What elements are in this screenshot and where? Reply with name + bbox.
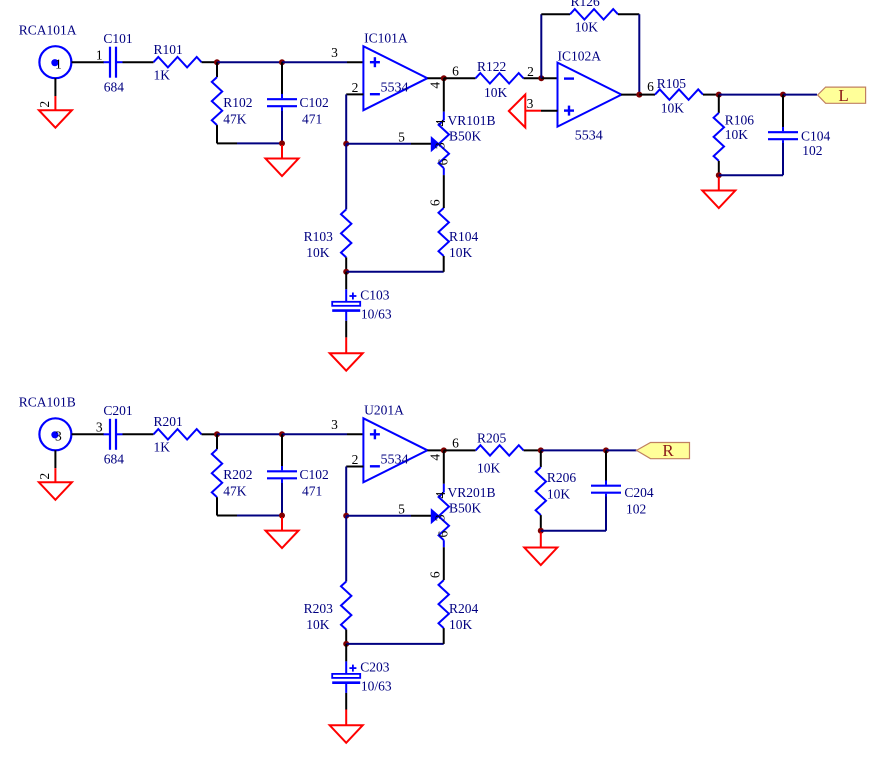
pin number 6 bbox=[452, 436, 459, 451]
ground bbox=[540, 533, 542, 548]
wire bbox=[540, 515, 542, 531]
svg-text:C102: C102 bbox=[300, 95, 329, 110]
label R206 bbox=[547, 470, 577, 485]
wire bbox=[217, 515, 282, 517]
svg-text:R202: R202 bbox=[223, 467, 252, 482]
wire bbox=[719, 94, 783, 96]
wire bbox=[216, 125, 218, 143]
value 47K bbox=[223, 484, 247, 499]
value 10/63 bbox=[361, 679, 392, 694]
wire bbox=[718, 161, 720, 175]
wire bbox=[782, 143, 784, 175]
wire bbox=[783, 94, 817, 96]
wire bbox=[345, 94, 347, 143]
svg-text:R205: R205 bbox=[477, 430, 507, 445]
resistor R103 bbox=[341, 209, 351, 257]
svg-text:VR201B: VR201B bbox=[448, 485, 496, 500]
svg-text:4: 4 bbox=[433, 119, 448, 126]
resistor R206 bbox=[536, 467, 546, 515]
svg-text:10K: 10K bbox=[477, 460, 501, 475]
svg-text:C203: C203 bbox=[360, 660, 390, 675]
port R bbox=[637, 441, 690, 460]
wire bbox=[281, 62, 283, 94]
wire bbox=[217, 142, 282, 144]
wire bbox=[427, 449, 443, 451]
pin number 2 bbox=[37, 101, 52, 108]
wire bbox=[217, 433, 282, 435]
svg-text:102: 102 bbox=[802, 143, 822, 158]
ground bbox=[281, 145, 283, 159]
pin number 3 bbox=[331, 45, 338, 60]
wire bbox=[719, 174, 783, 176]
wire bbox=[281, 434, 283, 466]
svg-text:R206: R206 bbox=[547, 470, 577, 485]
svg-text:4: 4 bbox=[433, 491, 448, 498]
wire bbox=[216, 62, 218, 77]
svg-text:6: 6 bbox=[647, 79, 654, 94]
svg-text:3: 3 bbox=[331, 45, 338, 60]
svg-text:C204: C204 bbox=[624, 485, 654, 500]
svg-text:C102: C102 bbox=[300, 467, 329, 482]
wire bbox=[703, 94, 719, 96]
value 10/63 bbox=[361, 307, 392, 322]
pin number 3 bbox=[331, 417, 338, 432]
ground bbox=[54, 78, 56, 110]
svg-text:10K: 10K bbox=[306, 245, 330, 260]
capacitor C102 bbox=[267, 94, 297, 112]
value 10K bbox=[575, 19, 599, 34]
svg-text:IC101A: IC101A bbox=[364, 30, 408, 45]
value 10K bbox=[449, 245, 473, 260]
wire bbox=[444, 77, 476, 79]
label U201A bbox=[364, 403, 404, 418]
svg-text:6: 6 bbox=[427, 571, 442, 578]
wire bbox=[282, 433, 363, 435]
value 10K bbox=[725, 127, 749, 142]
svg-text:R203: R203 bbox=[304, 601, 334, 616]
junction bbox=[279, 431, 285, 437]
svg-text:684: 684 bbox=[104, 452, 125, 467]
pin number 6 bbox=[427, 199, 442, 206]
pin number 3 bbox=[527, 96, 534, 111]
resistor R126 bbox=[570, 9, 618, 19]
value 10K bbox=[547, 487, 571, 502]
value 10K bbox=[484, 85, 508, 100]
wire bbox=[443, 628, 445, 644]
junction bbox=[214, 431, 220, 437]
wire bbox=[524, 77, 542, 79]
svg-text:10/63: 10/63 bbox=[361, 307, 392, 322]
potentiometer VR201B bbox=[431, 484, 449, 547]
svg-text:3: 3 bbox=[433, 514, 448, 521]
pin number 2 bbox=[352, 452, 359, 467]
pin number 4 bbox=[427, 454, 442, 461]
svg-text:2: 2 bbox=[352, 452, 359, 467]
junction bbox=[636, 92, 642, 98]
wire bbox=[524, 449, 541, 451]
svg-text:6: 6 bbox=[452, 64, 459, 79]
svg-text:R126: R126 bbox=[571, 0, 601, 9]
label R203 bbox=[304, 601, 334, 616]
capacitor C101 bbox=[104, 47, 123, 78]
junction bbox=[343, 641, 349, 647]
svg-text:10K: 10K bbox=[661, 100, 685, 115]
label IC101A bbox=[364, 30, 408, 45]
svg-text:R105: R105 bbox=[657, 76, 687, 91]
label R103 bbox=[304, 229, 334, 244]
pin number 3 bbox=[96, 420, 103, 435]
capacitor C103 bbox=[345, 272, 347, 290]
connector RCA101B bbox=[39, 418, 71, 450]
svg-text:3: 3 bbox=[527, 96, 534, 111]
wire bbox=[621, 94, 639, 96]
wire bbox=[217, 61, 282, 63]
wire bbox=[216, 434, 218, 449]
wire bbox=[443, 175, 445, 208]
wire bbox=[282, 61, 363, 63]
svg-text:471: 471 bbox=[302, 111, 322, 126]
value 10K bbox=[306, 617, 330, 632]
wire bbox=[443, 78, 445, 111]
capacitor C201 bbox=[104, 419, 123, 450]
wire bbox=[541, 77, 557, 79]
svg-text:2: 2 bbox=[37, 101, 52, 108]
capacitor C204 bbox=[591, 480, 621, 498]
svg-text:10K: 10K bbox=[449, 245, 473, 260]
svg-text:RCA101B: RCA101B bbox=[19, 394, 76, 409]
resistor R204 bbox=[439, 580, 449, 628]
pin number 5 bbox=[398, 501, 405, 516]
wire bbox=[202, 61, 218, 63]
value 684 bbox=[104, 79, 125, 94]
svg-text:6: 6 bbox=[435, 158, 450, 165]
svg-text:10/63: 10/63 bbox=[361, 679, 392, 694]
wire bbox=[345, 144, 347, 210]
svg-text:R201: R201 bbox=[154, 414, 183, 429]
wire bbox=[639, 94, 655, 96]
wire bbox=[346, 515, 431, 517]
svg-text:3: 3 bbox=[433, 142, 448, 149]
potentiometer VR101B bbox=[431, 112, 449, 175]
svg-text:C201: C201 bbox=[103, 403, 132, 418]
label C104 bbox=[801, 129, 831, 144]
wire bbox=[540, 14, 542, 78]
wire bbox=[123, 61, 154, 63]
svg-text:VR101B: VR101B bbox=[448, 113, 496, 128]
wire bbox=[605, 450, 607, 481]
pin number 4 bbox=[433, 491, 448, 498]
value B50K bbox=[449, 501, 482, 516]
label C203 bbox=[360, 660, 390, 675]
resistor R105 bbox=[655, 89, 703, 99]
label IC102A bbox=[558, 49, 602, 64]
label C201 bbox=[103, 403, 132, 418]
svg-text:10K: 10K bbox=[449, 617, 473, 632]
pin number 1 bbox=[96, 48, 103, 63]
value 10K bbox=[306, 245, 330, 260]
junction bbox=[441, 447, 447, 453]
resistor R202 bbox=[212, 449, 222, 497]
value 10K bbox=[477, 460, 501, 475]
ground bbox=[509, 95, 526, 128]
junction bbox=[214, 59, 220, 65]
svg-text:10K: 10K bbox=[484, 85, 508, 100]
wire bbox=[345, 630, 347, 644]
pin number 2 bbox=[37, 473, 52, 480]
wire bbox=[345, 467, 347, 516]
wire bbox=[443, 256, 445, 272]
label 5534 bbox=[381, 80, 409, 95]
svg-text:RCA101A: RCA101A bbox=[19, 22, 77, 37]
label R205 bbox=[477, 430, 507, 445]
svg-text:R103: R103 bbox=[304, 229, 334, 244]
junction bbox=[279, 59, 285, 65]
capacitor C102 bbox=[267, 466, 297, 484]
port L bbox=[818, 86, 866, 105]
svg-text:R: R bbox=[662, 441, 674, 460]
resistor R201 bbox=[154, 429, 202, 439]
svg-text:B50K: B50K bbox=[449, 128, 482, 143]
svg-text:3: 3 bbox=[331, 417, 338, 432]
svg-text:102: 102 bbox=[626, 501, 646, 516]
label C102 bbox=[300, 467, 329, 482]
wire bbox=[427, 77, 443, 79]
wire bbox=[202, 433, 218, 435]
op-amp IC102A bbox=[558, 63, 622, 127]
label R204 bbox=[449, 601, 479, 616]
svg-text:5: 5 bbox=[398, 501, 405, 516]
value 10K bbox=[449, 617, 473, 632]
wire bbox=[606, 449, 637, 451]
ground bbox=[281, 517, 283, 531]
label C204 bbox=[624, 485, 654, 500]
label R201 bbox=[154, 414, 183, 429]
wire bbox=[72, 61, 104, 63]
junction bbox=[441, 75, 447, 81]
label R102 bbox=[223, 95, 252, 110]
svg-text:U201A: U201A bbox=[364, 403, 404, 418]
wire bbox=[443, 547, 445, 580]
wire bbox=[782, 95, 784, 129]
ground bbox=[718, 177, 720, 191]
svg-text:IC102A: IC102A bbox=[558, 49, 602, 64]
label R122 bbox=[477, 59, 506, 74]
svg-text:6: 6 bbox=[427, 199, 442, 206]
junction bbox=[603, 447, 609, 453]
svg-text:R106: R106 bbox=[725, 113, 755, 128]
svg-text:B50K: B50K bbox=[449, 501, 482, 516]
pin number 3 bbox=[433, 142, 448, 149]
svg-text:2: 2 bbox=[37, 473, 52, 480]
svg-text:3: 3 bbox=[96, 420, 103, 435]
resistor R122 bbox=[476, 73, 524, 83]
svg-text:1: 1 bbox=[55, 57, 62, 72]
wire bbox=[346, 143, 431, 145]
wire bbox=[216, 497, 218, 515]
value 1K bbox=[154, 68, 171, 83]
junction bbox=[538, 528, 544, 534]
pin number 4 bbox=[427, 82, 442, 89]
wire bbox=[346, 466, 363, 468]
svg-text:R122: R122 bbox=[477, 59, 506, 74]
value 102 bbox=[626, 501, 646, 516]
ground bbox=[345, 321, 347, 353]
junction bbox=[780, 92, 786, 98]
ground bbox=[54, 450, 56, 482]
junction bbox=[538, 447, 544, 453]
svg-text:5534: 5534 bbox=[381, 452, 409, 467]
svg-text:R101: R101 bbox=[154, 42, 183, 57]
label R202 bbox=[223, 467, 252, 482]
value 471 bbox=[302, 111, 322, 126]
value 1K bbox=[154, 440, 171, 455]
svg-text:5: 5 bbox=[398, 129, 405, 144]
value 102 bbox=[802, 143, 822, 158]
pin number 6 bbox=[647, 79, 654, 94]
svg-text:R102: R102 bbox=[223, 95, 252, 110]
pin number 6 bbox=[427, 571, 442, 578]
wire bbox=[346, 271, 444, 273]
svg-text:10K: 10K bbox=[575, 19, 599, 34]
label VR bbox=[448, 113, 496, 128]
pin number 2 bbox=[352, 80, 359, 95]
wire bbox=[346, 643, 444, 645]
svg-text:6: 6 bbox=[452, 436, 459, 451]
svg-text:4: 4 bbox=[427, 82, 442, 89]
label R104 bbox=[449, 229, 479, 244]
svg-text:10K: 10K bbox=[306, 617, 330, 632]
capacitor C203 bbox=[345, 644, 347, 662]
resistor R102 bbox=[212, 77, 222, 125]
label 5534 bbox=[575, 129, 603, 144]
label RCA101A bbox=[19, 22, 77, 37]
svg-text:684: 684 bbox=[104, 79, 125, 94]
junction bbox=[343, 513, 349, 519]
pin number 6 bbox=[435, 530, 450, 537]
svg-text:47K: 47K bbox=[223, 484, 247, 499]
resistor R106 bbox=[714, 113, 724, 161]
junction bbox=[538, 75, 544, 81]
wire bbox=[638, 14, 640, 94]
wire bbox=[605, 497, 607, 531]
svg-text:L: L bbox=[838, 86, 848, 105]
svg-text:4: 4 bbox=[427, 454, 442, 461]
junction bbox=[343, 141, 349, 147]
wire bbox=[281, 111, 283, 143]
junction bbox=[279, 513, 285, 519]
value 47K bbox=[223, 111, 247, 126]
svg-text:47K: 47K bbox=[223, 111, 247, 126]
label C101 bbox=[103, 31, 132, 46]
wire bbox=[540, 450, 542, 467]
wire bbox=[345, 257, 347, 271]
value 10K bbox=[661, 100, 685, 115]
wire bbox=[541, 110, 558, 112]
label RCA101B bbox=[19, 394, 76, 409]
connector RCA101A bbox=[39, 46, 71, 78]
pin number 3 bbox=[433, 514, 448, 521]
capacitor C104 bbox=[768, 127, 798, 145]
svg-text:C101: C101 bbox=[103, 31, 132, 46]
value B50K bbox=[449, 128, 482, 143]
svg-text:1K: 1K bbox=[154, 440, 171, 455]
wire bbox=[444, 449, 476, 451]
svg-text:1K: 1K bbox=[154, 68, 171, 83]
pin number 4 bbox=[433, 119, 448, 126]
label 5534 bbox=[381, 452, 409, 467]
wire bbox=[443, 450, 445, 483]
junction bbox=[716, 172, 722, 178]
wire bbox=[541, 13, 570, 15]
junction bbox=[343, 269, 349, 275]
pin number 5 bbox=[398, 129, 405, 144]
label R101 bbox=[154, 42, 183, 57]
resistor R203 bbox=[341, 582, 351, 630]
wire bbox=[72, 433, 104, 435]
svg-text:5534: 5534 bbox=[381, 80, 409, 95]
svg-text:1: 1 bbox=[96, 48, 103, 63]
svg-text:C104: C104 bbox=[801, 129, 831, 144]
label VR bbox=[448, 485, 496, 500]
resistor R205 bbox=[476, 445, 524, 455]
resistor R104 bbox=[439, 208, 449, 256]
wire bbox=[345, 516, 347, 582]
wire bbox=[618, 13, 639, 15]
label R106 bbox=[725, 113, 755, 128]
pin number 6 bbox=[452, 64, 459, 79]
wire bbox=[346, 93, 363, 95]
svg-text:C103: C103 bbox=[360, 288, 390, 303]
value 684 bbox=[104, 452, 125, 467]
label R105 bbox=[657, 76, 687, 91]
wire bbox=[541, 449, 606, 451]
value 471 bbox=[302, 484, 322, 499]
svg-text:R204: R204 bbox=[449, 601, 479, 616]
svg-text:R104: R104 bbox=[449, 229, 479, 244]
wire bbox=[123, 433, 154, 435]
ground bbox=[345, 693, 347, 725]
label C102 bbox=[300, 95, 329, 110]
svg-text:5534: 5534 bbox=[575, 129, 603, 144]
resistor R101 bbox=[154, 57, 202, 67]
svg-text:10K: 10K bbox=[725, 127, 749, 142]
svg-text:10K: 10K bbox=[547, 487, 571, 502]
svg-text:3: 3 bbox=[55, 429, 62, 444]
label R126 bbox=[571, 0, 601, 9]
op-amp IC101A bbox=[363, 46, 427, 110]
svg-text:471: 471 bbox=[302, 484, 322, 499]
junction bbox=[279, 140, 285, 146]
svg-text:2: 2 bbox=[352, 80, 359, 95]
label C103 bbox=[360, 288, 390, 303]
pin number 2 bbox=[527, 64, 534, 79]
wire bbox=[541, 530, 606, 532]
svg-text:6: 6 bbox=[435, 530, 450, 537]
svg-text:2: 2 bbox=[527, 64, 534, 79]
wire bbox=[718, 95, 720, 113]
pin number 6 bbox=[435, 158, 450, 165]
op-amp U201A bbox=[363, 418, 427, 482]
wire bbox=[281, 483, 283, 516]
junction bbox=[716, 92, 722, 98]
